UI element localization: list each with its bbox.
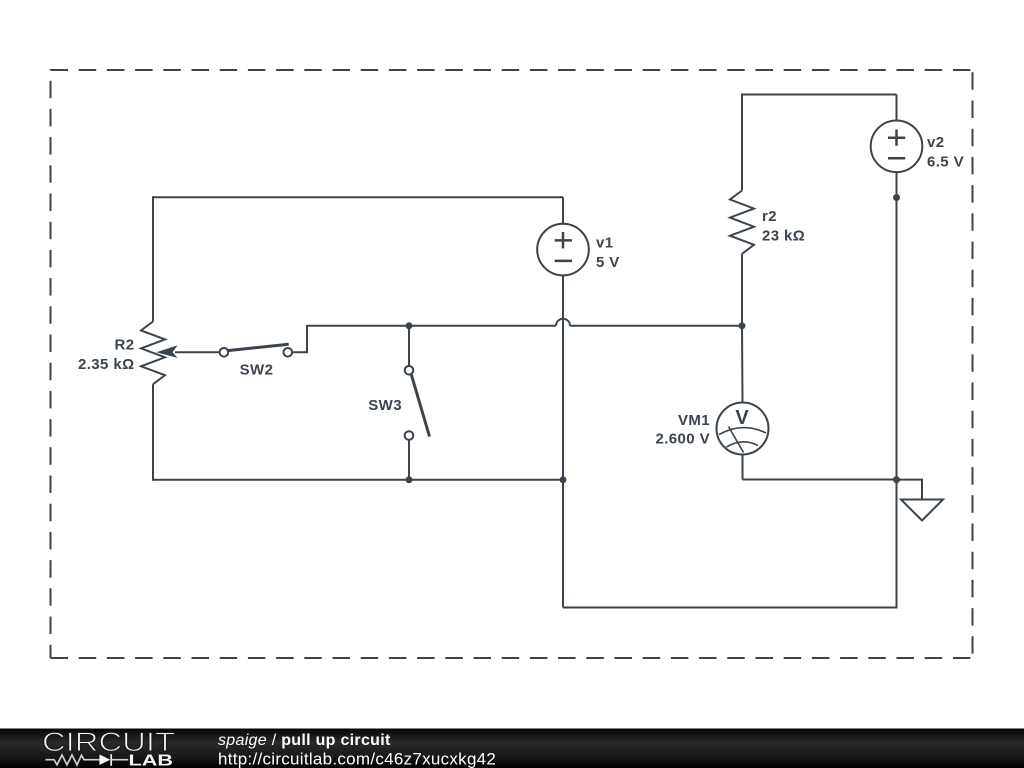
CircuitLab logo resistor-diode glyph [46,754,129,766]
svg-text:v2: v2 [927,134,945,151]
node junction at (742,326) [739,322,746,329]
svg-text:6.5 V: 6.5 V [927,154,964,171]
voltage source v1 body [537,224,589,276]
wire top-left horizontal (153,197)-(563,197) [153,196,563,198]
wire SW3 top lead [408,326,410,366]
voltmeter VM1 body [717,403,769,455]
svg-text:2.35 kΩ: 2.35 kΩ [78,356,135,373]
wire r2 bottom lead [741,254,743,326]
wire left vertical upper lead of R2 [152,196,154,321]
wire VM1 bottom lead [742,455,744,480]
wire R2 bottom lead [152,384,154,481]
svg-text:SW3: SW3 [368,397,402,414]
wire v2 bottom lead [896,172,898,198]
svg-text:LAB: LAB [129,753,174,768]
node terminal dot at (896.5,197.5) [893,194,900,201]
potentiometer R2 wiper arrow [156,345,219,358]
svg-text:2.600 V: 2.600 V [655,431,710,448]
svg-text:V: V [735,407,749,429]
svg-text:R2: R2 [115,337,135,354]
wire middle rail (570,326)-(741,326) [570,325,742,327]
wire to ground symbol [897,480,923,500]
node junction at (563,480) [560,476,567,483]
svg-text:5 V: 5 V [596,254,620,271]
switch SW2 lever [228,344,289,350]
voltage source v1 top lead [562,197,564,224]
node junction at (409,326) [406,322,413,329]
resistor r2 zigzag body [730,191,754,254]
wire hop over v1 lead at (563,326) [556,319,570,326]
wire right vertical (896.5,197.5)-(896.5,480) [896,198,898,480]
wire v1 bottom lead down to bottom rail [562,275,564,608]
switch SW2 right terminal [284,348,293,357]
potentiometer R2 zigzag body [141,322,165,385]
schematic dashed border bottom edge [51,657,973,659]
wire r2 top lead [741,94,743,191]
svg-text:23 kΩ: 23 kΩ [762,228,805,245]
schematic dashed border left edge [50,69,52,658]
wire top-right horizontal (742,94.5)-(896.5,94.5) [742,94,897,96]
node junction at (409,480) [406,476,413,483]
footer bar [0,729,1024,768]
switch SW3 lever (open) [411,375,429,437]
svg-text:VM1: VM1 [678,412,710,429]
node junction at (896.5,479.6) [893,476,900,483]
svg-text:r2: r2 [762,208,777,225]
switch SW3 bottom terminal [405,431,414,440]
svg-text:SW2: SW2 [240,362,274,379]
wire SW3 bottom lead [408,440,410,480]
schematic dashed border right edge [972,70,974,658]
wire VM1 top lead [741,326,744,403]
switch SW2 left terminal [220,348,229,357]
voltage source v2 body [871,121,923,173]
wire VM1 to ground node (742.5,479.5)-(896.5,479.5) [743,479,897,481]
schematic dashed border top edge [51,69,973,71]
svg-text:v1: v1 [596,235,614,252]
svg-text:spaige / pull up circuit: spaige / pull up circuit [218,732,391,749]
wire from SW2 to middle rail [292,326,556,353]
voltage source v2 top lead [896,95,898,122]
ground [901,500,943,521]
switch SW3 top terminal [405,366,414,375]
svg-text:http://circuitlab.com/c46z7xuc: http://circuitlab.com/c46z7xucxkg42 [218,750,496,768]
wire bottom rail (563,607)-(896,607)-(896,480) [563,480,897,608]
wire bottom-left horizontal (153,480)-(563,480) [153,479,563,481]
